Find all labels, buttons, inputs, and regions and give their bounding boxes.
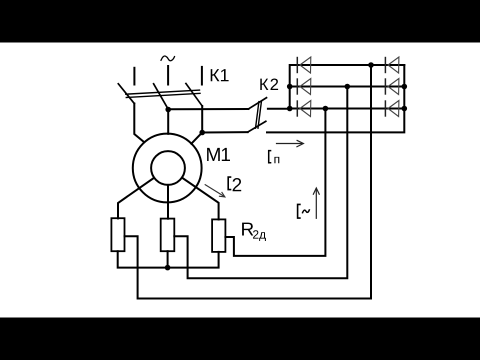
resistor R2d element 2	[161, 219, 175, 252]
rotor wire middle	[167, 185, 169, 219]
junction dot bridge left bus row2	[287, 84, 293, 90]
contactor K1 blade 1	[118, 84, 134, 104]
contactor K1 blade 2	[154, 84, 169, 109]
resistor 2 bottom wire	[167, 251, 169, 267]
rotor wire right	[182, 178, 219, 220]
label R2d	[242, 223, 253, 236]
bottom letterbox bar	[0, 318, 480, 360]
motor stator circle	[133, 134, 202, 203]
wire K2 lower to bridge right bus	[267, 65, 404, 132]
diode VD4 (right col, row 1)	[385, 57, 399, 73]
K2 upper blade	[248, 98, 266, 109]
label K2	[260, 79, 278, 91]
junction dot bridge left bus row3	[287, 106, 293, 112]
bridge left bus and row 1 wire	[290, 65, 405, 109]
star-point bus wire	[118, 251, 219, 267]
top letterbox bar	[0, 0, 480, 43]
label In	[269, 151, 272, 163]
arrow for rotor current I2	[205, 184, 225, 197]
junction dot rotor star point	[165, 265, 171, 271]
rotor wire left	[118, 178, 154, 219]
bridge row 3 wire	[290, 108, 405, 110]
diode VD3 (left col, row 3)	[297, 100, 311, 116]
tap wire from resistor 2 to diode row 2	[174, 87, 347, 279]
wire K2 upper to bridge left bus	[268, 108, 290, 110]
junction dot phase2/K2	[165, 107, 171, 113]
junction dot phase3/K2	[199, 130, 205, 136]
AC tilde symbol	[161, 56, 175, 61]
motor rotor circle	[151, 151, 185, 185]
supply terminal L2	[167, 66, 169, 85]
wire phase 3 to K2 lower pole	[202, 131, 248, 133]
contactor K1 blade 3	[186, 84, 202, 107]
label K1	[211, 69, 229, 81]
junction dot tap3 row3	[323, 106, 329, 112]
tap wire from resistor 3 to diode row 3	[225, 109, 325, 256]
wire phase 1 to stator	[134, 104, 143, 142]
diode VD6 (right col, row 3)	[385, 100, 399, 116]
label M1	[207, 148, 230, 161]
arrow for current I~	[313, 188, 319, 219]
K1 linkage bar line 1	[126, 90, 200, 94]
tap wire from resistor 1 to diode row 1	[125, 65, 372, 299]
label Itilde	[298, 204, 310, 218]
diode VD1 (left col, row 1)	[297, 57, 311, 73]
supply terminal L1	[133, 68, 135, 85]
bridge row 2 wire	[290, 86, 405, 88]
diode VD2 (left col, row 2)	[297, 78, 311, 94]
resistor R2d element 1	[111, 218, 124, 251]
junction dot tap2 row2	[345, 84, 351, 90]
junction dot tap1 row1	[368, 62, 374, 68]
K2 linkage bar line 1	[256, 102, 259, 129]
wire phase 3 to stator	[191, 106, 202, 144]
wire phase 2 to stator	[167, 109, 169, 134]
junction dot bridge right bus row3	[402, 106, 408, 112]
K2 linkage bar line 2	[258, 102, 261, 129]
arrow for current In	[276, 140, 304, 147]
K1 linkage bar line 2	[126, 93, 200, 97]
resistor R2d element 3	[212, 219, 225, 252]
K2 lower blade	[248, 121, 266, 132]
supply terminal L3	[201, 67, 203, 85]
junction dot bridge right bus row2	[402, 84, 408, 90]
diode VD5 (right col, row 2)	[385, 78, 399, 94]
wire phase 2 to K2 upper pole	[168, 108, 248, 110]
label I2	[228, 177, 231, 190]
